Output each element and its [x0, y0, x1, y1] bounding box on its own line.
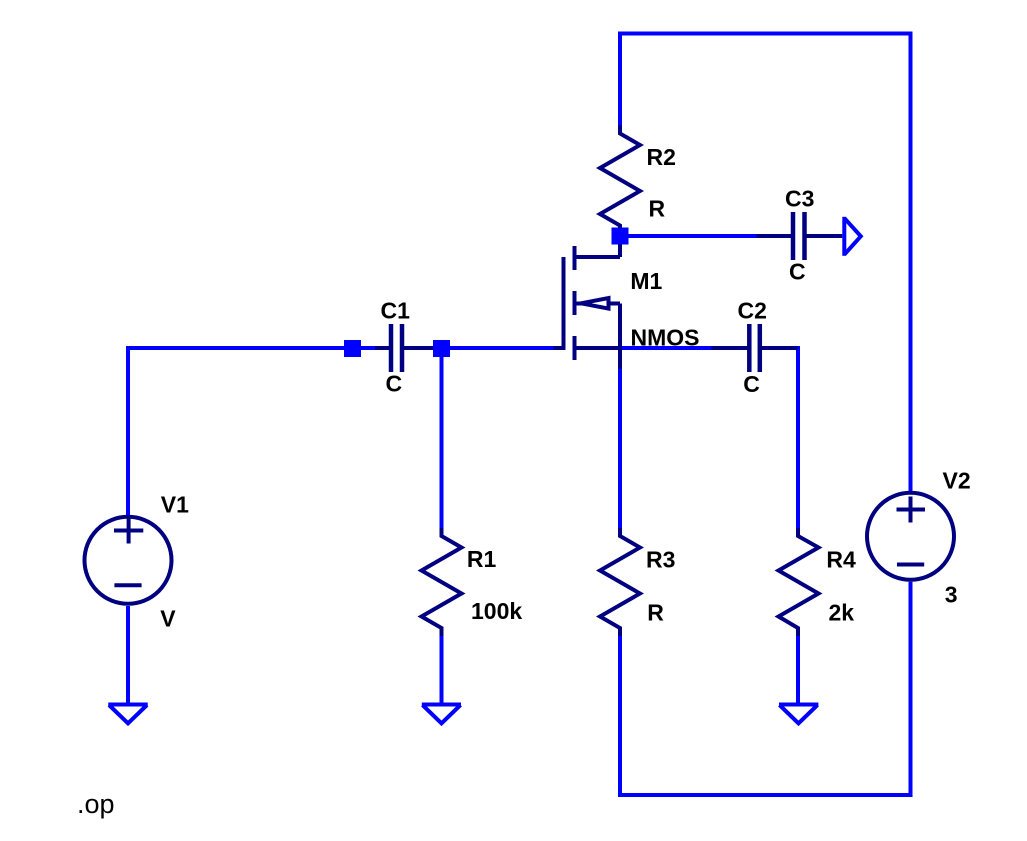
svg-text:C: C — [743, 371, 760, 397]
svg-text:V2: V2 — [943, 468, 971, 494]
svg-text:C: C — [789, 259, 806, 285]
svg-text:R3: R3 — [646, 547, 675, 573]
svg-text:C3: C3 — [785, 186, 814, 212]
svg-text:R1: R1 — [467, 546, 497, 572]
svg-text:V1: V1 — [161, 492, 189, 518]
svg-text:3: 3 — [945, 582, 958, 608]
svg-text:C2: C2 — [738, 298, 767, 324]
svg-text:2k: 2k — [829, 600, 855, 626]
svg-text:100k: 100k — [471, 598, 522, 624]
svg-text:C: C — [386, 371, 403, 397]
svg-text:R: R — [647, 600, 664, 626]
svg-text:.op: .op — [77, 789, 115, 819]
svg-text:R4: R4 — [826, 547, 856, 573]
svg-text:NMOS: NMOS — [631, 325, 700, 351]
svg-text:R2: R2 — [647, 144, 676, 170]
svg-text:R: R — [649, 196, 666, 222]
svg-text:C1: C1 — [381, 298, 411, 324]
svg-text:V: V — [160, 606, 176, 632]
svg-text:M1: M1 — [630, 268, 662, 294]
